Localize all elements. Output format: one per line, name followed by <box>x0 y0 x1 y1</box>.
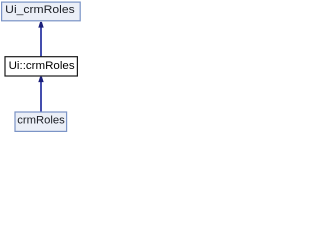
class box Ui::crmRoles (current class) <box>5 57 77 76</box>
svg-text:Ui_crmRoles: Ui_crmRoles <box>5 4 75 16</box>
class box crmRoles (derived class, linked style) <box>15 112 67 131</box>
svg-text:Ui::crmRoles: Ui::crmRoles <box>9 60 76 72</box>
inheritance arrowhead (points at Ui::crmRoles) <box>38 77 43 83</box>
svg-text:crmRoles: crmRoles <box>17 115 65 127</box>
class box Ui_crmRoles (base class, linked style) <box>2 2 81 21</box>
inheritance arrow shaft (crmRoles to Ui::crmRoles) <box>40 82 42 112</box>
inheritance arrow shaft (Ui::crmRoles to Ui_crmRoles) <box>40 27 42 57</box>
inheritance arrowhead (points at Ui_crmRoles) <box>38 22 43 28</box>
